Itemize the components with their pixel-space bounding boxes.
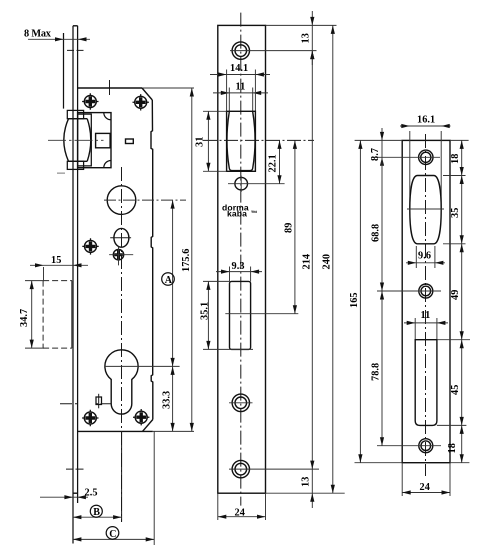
dim 13 top line — [311, 11, 313, 65]
case bottom edge — [78, 430, 153, 432]
strike screw hole mid — [419, 284, 433, 298]
dim 9.6 ext — [415, 246, 417, 268]
screw top-right — [133, 94, 149, 110]
screw mid-left — [82, 238, 98, 254]
fixing pin detail — [96, 397, 102, 405]
dim 175.6 line — [191, 88, 193, 431]
dim 35.1 line — [207, 281, 209, 349]
slot mid extension line — [225, 313, 298, 315]
middle screw hole cross — [228, 183, 285, 185]
svg-text:C: C — [109, 529, 116, 540]
svg-text:18: 18 — [447, 443, 458, 453]
dim 15 line — [30, 264, 88, 266]
dim 8 Max line — [28, 38, 90, 40]
svg-text:68.8: 68.8 — [371, 224, 382, 242]
svg-text:16.1: 16.1 — [417, 115, 435, 126]
plate centerline vertical — [240, 13, 242, 506]
door face line — [63, 33, 65, 109]
lower screw hole 2 outer — [232, 460, 249, 477]
latch bolt upper block — [67, 110, 83, 118]
case top-right chamfer — [142, 88, 152, 100]
dim A line (follower to cylinder) — [172, 200, 174, 366]
hole bottom cross line — [377, 445, 441, 447]
dim C line — [73, 538, 154, 540]
dim 214 line — [311, 51, 313, 470]
top edge extension line for 175.6 — [142, 87, 194, 89]
dim 8.7 chained line — [381, 128, 383, 157]
dim 9.3 ext — [229, 267, 231, 282]
plate edge extensions down — [217, 493, 219, 520]
hole1 cross tick — [229, 402, 253, 404]
bottom edge extension right — [266, 492, 345, 494]
strike screw hole top — [419, 150, 433, 164]
small screw below oval — [113, 250, 123, 260]
dim 68.8 line — [381, 157, 383, 291]
right chained dims 18/35/49/45/18 — [461, 140, 463, 462]
follower centerline horizontal — [104, 199, 186, 201]
svg-text:35.1: 35.1 — [200, 302, 211, 320]
latch bolt lower block — [67, 161, 83, 169]
dim 78.8 line — [381, 291, 383, 446]
case right edge with notches — [151, 100, 153, 420]
top hole centerline to right dims — [230, 50, 317, 52]
svg-text:175.6: 175.6 — [181, 249, 192, 272]
latch centerline — [48, 139, 104, 141]
lens mid line — [407, 208, 444, 210]
ext lines cutout width — [226, 70, 228, 112]
tick above case top — [109, 80, 111, 95]
balloon B — [90, 505, 102, 517]
latch centerline horizontal — [203, 139, 314, 141]
centerline tick top of plate — [67, 49, 84, 51]
lower screw hole 2 inner — [235, 463, 247, 475]
latch bolt bottom edge — [232, 170, 250, 172]
screw bottom-left — [82, 410, 98, 426]
dim 2.5 line — [40, 496, 88, 498]
dim 31 line — [207, 111, 209, 171]
svg-text:A: A — [165, 275, 173, 286]
dim 15 extension — [43, 267, 45, 281]
hole mid cross line — [377, 290, 441, 292]
hole2 centerline to right dims — [229, 468, 319, 470]
follower hub circle — [107, 186, 136, 215]
dim 89 line — [294, 140, 296, 313]
slot bottom edge extension right — [437, 424, 467, 426]
case bottom-right chamfer — [143, 420, 153, 432]
dim 34.7 ext top — [25, 280, 44, 282]
dim 24 line — [218, 516, 266, 518]
dim 34.7 ext bottom — [25, 347, 44, 349]
svg-text:18: 18 — [450, 154, 461, 164]
svg-text:kaba: kaba — [227, 209, 247, 219]
ext lines lens to right col — [443, 175, 466, 177]
latch bolt right curve — [250, 112, 255, 171]
latch bolt face curve — [64, 119, 69, 162]
faceplate outline — [218, 25, 266, 493]
case edge extension to C — [153, 431, 155, 545]
top screw hole inner — [235, 45, 247, 57]
svg-text:14.1: 14.1 — [230, 63, 248, 74]
middle screw hole — [235, 177, 248, 190]
latch cutout rect — [227, 111, 256, 171]
euro centerline horizontal — [104, 365, 179, 367]
strike centerline vertical — [425, 134, 427, 476]
dim 240 line — [332, 25, 334, 493]
svg-text:9.3: 9.3 — [232, 261, 245, 272]
balloon A — [162, 273, 175, 286]
latch bolt head top edge — [69, 118, 88, 120]
dim 13 bottom line — [311, 469, 313, 508]
dim 31 ext — [203, 110, 227, 112]
svg-text:240: 240 — [322, 254, 333, 270]
bottom edge extension for 175.6 / 33.3 — [153, 430, 194, 432]
ext lines bolt width — [228, 88, 230, 113]
svg-text:11: 11 — [421, 310, 431, 321]
logo dormakaba — [222, 203, 258, 219]
latch lens cutout — [410, 176, 441, 244]
faceplate top cap — [73, 25, 78, 27]
latch housing box — [78, 113, 111, 168]
dim 33.3 line — [172, 366, 174, 431]
dim 11 line — [404, 322, 448, 324]
lower screw hole 1 inner — [235, 397, 247, 409]
lock case top edge — [78, 87, 142, 89]
svg-text:8 Max: 8 Max — [24, 29, 52, 40]
slot top edge extension right — [437, 339, 470, 341]
svg-text:8.7: 8.7 — [370, 148, 381, 161]
latch tail rect — [78, 114, 92, 166]
faceplate bottom cap — [73, 492, 78, 494]
dashed strike pocket rect — [43, 281, 72, 349]
strike plate outline — [402, 140, 450, 462]
top screw hole outer — [232, 42, 249, 59]
dim 165 line — [359, 140, 361, 462]
screw top-left — [82, 93, 98, 109]
latch bolt back curve — [87, 119, 91, 162]
cylinder axis extension to B — [121, 431, 123, 521]
svg-text:™: ™ — [251, 211, 258, 218]
svg-text:34.7: 34.7 — [19, 309, 30, 327]
dim 11 line — [213, 92, 268, 94]
housing corner arc top-right — [104, 113, 111, 120]
faceplate front line — [72, 26, 74, 544]
balloon C — [106, 527, 119, 540]
svg-text:165: 165 — [349, 292, 360, 308]
dim 22.1 line — [279, 140, 281, 183]
bolt slot rect — [415, 340, 437, 426]
dim 9.6 line — [406, 262, 445, 264]
oval centerline — [110, 237, 131, 239]
stem arc centerline tick — [60, 403, 112, 405]
centerline tick at lower screw height — [66, 468, 84, 470]
dim 34.7 line — [31, 281, 33, 349]
euro cylinder keyhole outline — [105, 350, 138, 414]
svg-text:B: B — [93, 507, 100, 518]
dim 35.1 ext — [203, 280, 230, 282]
dim 9.3 line — [216, 271, 262, 273]
vertical centerline of lock axis — [121, 167, 123, 522]
svg-text:9.6: 9.6 — [418, 251, 431, 262]
dim 14.1 line — [210, 74, 270, 76]
svg-text:45: 45 — [450, 385, 461, 395]
svg-text:33.3: 33.3 — [162, 391, 173, 409]
top edge extension both sides — [355, 139, 403, 141]
screw bottom-right — [133, 409, 149, 425]
latch bolt left curve — [227, 112, 232, 171]
svg-text:15: 15 — [51, 255, 61, 266]
svg-text:22.1: 22.1 — [268, 154, 279, 172]
dim 24 line — [402, 492, 450, 494]
oval knob slot — [114, 228, 129, 247]
cylinder slot — [230, 281, 251, 349]
svg-text:35: 35 — [450, 208, 461, 218]
svg-text:13: 13 — [301, 477, 312, 487]
dim B line — [73, 516, 122, 518]
small stop rect — [126, 139, 134, 144]
lower screw hole 1 outer — [232, 394, 249, 411]
latch guide rect — [96, 133, 111, 147]
svg-text:11: 11 — [236, 82, 246, 93]
svg-text:13: 13 — [301, 33, 312, 43]
latch bolt head bottom edge — [69, 160, 88, 162]
small screw cross lines — [109, 254, 133, 256]
housing corner arc bottom-right — [104, 161, 111, 168]
svg-text:49: 49 — [450, 290, 461, 300]
dim 11 ext — [414, 318, 416, 340]
dim 16.1 ext lines — [409, 131, 411, 209]
bottom edge extension both sides — [355, 462, 403, 464]
dim 16.1 line — [400, 125, 451, 127]
svg-text:24: 24 — [420, 482, 430, 493]
svg-text:214: 214 — [302, 254, 313, 270]
svg-text:78.8: 78.8 — [371, 363, 382, 381]
svg-text:89: 89 — [284, 223, 295, 233]
svg-text:31: 31 — [195, 137, 206, 147]
faceplate back line — [77, 26, 79, 503]
strike screw hole bottom — [419, 439, 433, 453]
hole top cross line — [376, 156, 440, 158]
tick left of plate — [57, 172, 65, 174]
plate edge extensions down — [401, 463, 403, 496]
top edge extension right — [266, 24, 337, 26]
